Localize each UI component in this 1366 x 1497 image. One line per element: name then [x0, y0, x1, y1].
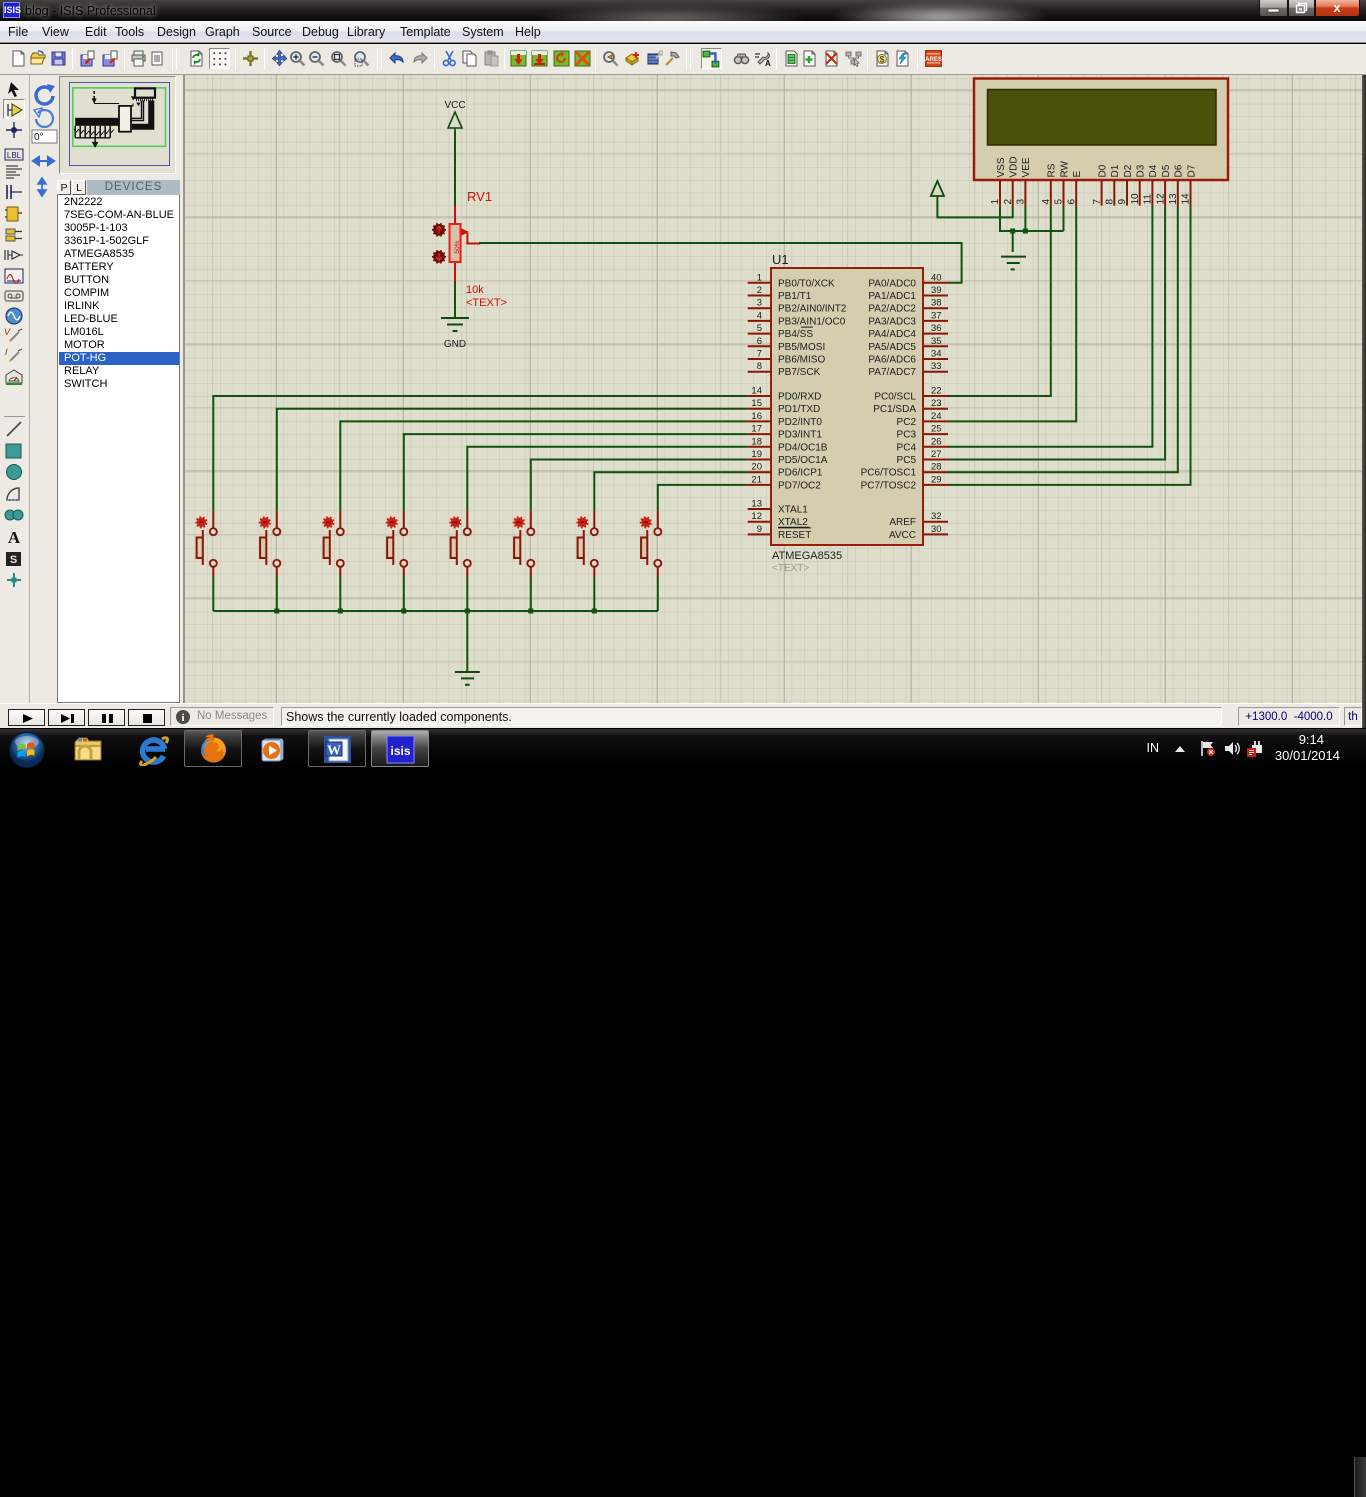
svg-text:VEE: VEE — [1021, 157, 1032, 177]
U1 pin 24 (PC2) — [897, 411, 948, 428]
wire LCD RS to U1 pin 22 — [948, 206, 1051, 396]
U1 pin 35 (PA5/ADC5) — [868, 336, 948, 353]
svg-text:U1: U1 — [772, 252, 789, 267]
svg-text:12: 12 — [1155, 193, 1166, 205]
svg-text:1: 1 — [757, 272, 762, 283]
svg-text:25: 25 — [931, 424, 942, 435]
LCD1 pin 10 (D3) — [1130, 164, 1147, 205]
wire LCD E to U1 pin 24 — [948, 206, 1076, 422]
svg-text:PB0/T0/XCK: PB0/T0/XCK — [778, 278, 835, 289]
U1 pin 17 (PD3/INT1) — [748, 424, 823, 441]
svg-text:PC6/TOSC1: PC6/TOSC1 — [861, 468, 917, 479]
svg-text:6: 6 — [757, 336, 762, 347]
U1 pin 19 (PD5/OC1A) — [748, 449, 828, 466]
svg-text:PC7/TOSC2: PC7/TOSC2 — [861, 480, 917, 491]
svg-text:PB7/SCK: PB7/SCK — [778, 367, 821, 378]
svg-text:PA6/ADC6: PA6/ADC6 — [868, 355, 916, 366]
svg-text:PD1/TXD: PD1/TXD — [778, 404, 820, 415]
U1 pin 26 (PC4) — [897, 436, 948, 453]
svg-text:D3: D3 — [1136, 164, 1147, 177]
svg-text:E: E — [1072, 171, 1083, 178]
wire ground stem — [1012, 231, 1014, 252]
LCD1 pin 8 (D1) — [1105, 164, 1122, 205]
U1 pin 16 (PD2/INT0) — [748, 411, 823, 428]
svg-text:PC4: PC4 — [897, 442, 917, 453]
svg-text:VDD: VDD — [1009, 156, 1020, 177]
wire LCD D4 to U1 pin 26 — [948, 206, 1152, 447]
U1 pin 23 (PC1/SDA) — [873, 398, 948, 415]
wire U1 pin 21 to button 8 — [658, 485, 748, 511]
junction bus 1 — [274, 609, 279, 614]
wire button 6 to ground bus — [530, 577, 532, 611]
svg-text:PD2/INT0: PD2/INT0 — [778, 417, 822, 428]
svg-text:PD3/INT1: PD3/INT1 — [778, 430, 822, 441]
svg-text:RV1: RV1 — [467, 189, 492, 204]
pushbutton SW7 (BUTTON) — [576, 511, 598, 577]
ground GND (below RV1) — [441, 318, 469, 350]
LCD1 pin 3 (VEE) — [1016, 157, 1033, 205]
junction bus 2 — [338, 609, 343, 614]
wire VCC to LCD VDD — [937, 200, 1012, 217]
svg-text:PA3/ADC3: PA3/ADC3 — [868, 316, 916, 327]
svg-text:x: x — [1333, 0, 1341, 15]
svg-text:PD5/OC1A: PD5/OC1A — [778, 455, 828, 466]
svg-text:36: 36 — [931, 323, 942, 334]
svg-text:<TEXT>: <TEXT> — [466, 297, 507, 309]
svg-text:3: 3 — [757, 298, 762, 309]
svg-text:8: 8 — [1105, 199, 1116, 205]
svg-text:6: 6 — [1066, 199, 1077, 205]
svg-text:PB5/MOSI: PB5/MOSI — [778, 342, 825, 353]
svg-text:21: 21 — [751, 474, 762, 485]
svg-text:20: 20 — [751, 462, 762, 473]
svg-text:13: 13 — [751, 499, 762, 510]
U1 pin 5 (PB4/SS) — [748, 323, 814, 340]
svg-text:XTAL2: XTAL2 — [778, 517, 808, 528]
svg-text:8: 8 — [757, 361, 762, 372]
svg-text:PA7/ADC7: PA7/ADC7 — [868, 367, 916, 378]
svg-text:14: 14 — [1181, 193, 1192, 205]
junction bus 3 — [401, 609, 406, 614]
U1 pin 28 (PC6/TOSC1) — [861, 462, 948, 479]
svg-text:2: 2 — [1003, 199, 1014, 205]
svg-text:D2: D2 — [1123, 164, 1134, 177]
svg-text:D7: D7 — [1186, 164, 1197, 177]
U1 pin 34 (PA6/ADC6) — [868, 349, 948, 366]
RV1 decrement button — [432, 250, 446, 263]
pushbutton SW1 (BUTTON) — [195, 511, 217, 577]
svg-text:W: W — [327, 744, 341, 759]
wire LCD D6 to U1 pin 28 — [948, 206, 1178, 473]
svg-text:PC3: PC3 — [897, 430, 917, 441]
U1 pin 8 (PB7/SCK) — [748, 361, 821, 378]
wire LCD RW down — [1063, 206, 1065, 231]
svg-text:I: I — [5, 347, 8, 357]
LCD1 pin 1 (VSS) — [990, 157, 1007, 205]
LCD1 pin 9 (D2) — [1117, 164, 1134, 205]
U1 pin 6 (PB5/MOSI) — [748, 336, 826, 353]
LCD1 pin 7 (D0) — [1092, 164, 1109, 205]
svg-text:PA1/ADC1: PA1/ADC1 — [868, 291, 916, 302]
svg-text:PC5: PC5 — [897, 455, 917, 466]
svg-text:13: 13 — [1168, 193, 1179, 205]
U1 pin 9 (RESET) — [748, 524, 812, 541]
wire LCD D7 to U1 pin 29 — [948, 206, 1191, 485]
svg-text:S: S — [10, 554, 17, 566]
svg-text:AREF: AREF — [889, 517, 916, 528]
svg-text:AVCC: AVCC — [889, 530, 916, 541]
U1 pin 22 (PC0/SCL) — [874, 386, 948, 403]
svg-text:15: 15 — [751, 398, 762, 409]
wire U1 pin 15 to button 2 — [277, 409, 748, 511]
svg-text:LBL: LBL — [7, 151, 22, 160]
svg-text:35: 35 — [931, 336, 942, 347]
U1 pin 36 (PA4/ADC4) — [868, 323, 948, 340]
U1 pin 33 (PA7/ADC7) — [868, 361, 948, 378]
ground GND (below buttons) — [455, 672, 480, 685]
U1 pin 13 (XTAL1) — [748, 499, 809, 516]
junction (VEE) — [1023, 229, 1028, 234]
svg-text:0°: 0° — [34, 132, 44, 143]
wire button 7 to ground bus — [593, 577, 595, 611]
svg-text:39: 39 — [931, 285, 942, 296]
svg-text:A: A — [8, 528, 21, 547]
U1 pin 1 (PB0/T0/XCK) — [748, 272, 835, 289]
svg-text:PB1/T1: PB1/T1 — [778, 291, 812, 302]
svg-text:3: 3 — [1016, 199, 1027, 205]
U1 pin 15 (PD1/TXD) — [748, 398, 821, 415]
junction (GND stem) — [1010, 229, 1015, 234]
svg-text:32: 32 — [931, 511, 942, 522]
svg-text:D1: D1 — [1110, 164, 1121, 177]
U1 pin 21 (PD7/OC2) — [748, 474, 822, 491]
svg-text:10k: 10k — [466, 284, 484, 296]
svg-text:<TEXT>: <TEXT> — [772, 563, 809, 574]
svg-text:26: 26 — [931, 436, 942, 447]
svg-text:XTAL1: XTAL1 — [778, 505, 808, 516]
svg-text:D6: D6 — [1174, 164, 1185, 177]
svg-text:34: 34 — [931, 349, 942, 360]
svg-text:PD4/OC1B: PD4/OC1B — [778, 442, 828, 453]
power terminal VCC (RV1) — [444, 100, 465, 132]
U1 pin 4 (PB3/AIN1/OC0) — [748, 310, 846, 327]
svg-text:PB4/SS: PB4/SS — [778, 329, 813, 340]
wire button 1 to ground bus — [212, 577, 214, 611]
svg-text:PD6/ICP1: PD6/ICP1 — [778, 468, 823, 479]
LCD1 pin 2 (VDD) — [1003, 156, 1020, 205]
svg-text:isis: isis — [390, 744, 410, 758]
svg-text:D4: D4 — [1148, 164, 1159, 177]
wire RV1 to GND — [454, 281, 456, 318]
svg-text:PC1/SDA: PC1/SDA — [873, 404, 916, 415]
LCD1 pin 4 (RS) — [1041, 163, 1058, 205]
svg-text:4: 4 — [757, 310, 762, 321]
svg-text:GND: GND — [444, 339, 466, 350]
wire VCC to RV1 — [454, 131, 456, 206]
svg-text:19: 19 — [751, 449, 762, 460]
wire bus to GND — [466, 611, 468, 672]
U1 pin 40 (PA0/ADC0) — [868, 272, 948, 289]
wire button 5 to ground bus — [466, 577, 468, 611]
svg-text:ATMEGA8535: ATMEGA8535 — [772, 550, 842, 562]
svg-text:V: V — [4, 327, 11, 337]
svg-text:RW: RW — [1059, 160, 1070, 177]
svg-text:5: 5 — [1054, 199, 1065, 205]
svg-text:D5: D5 — [1161, 164, 1172, 177]
pushbutton SW5 (BUTTON) — [449, 511, 471, 577]
svg-text:17: 17 — [751, 424, 762, 435]
svg-text:16: 16 — [751, 411, 762, 422]
wire U1 pin 18 to button 5 — [467, 447, 747, 511]
svg-text:D0: D0 — [1097, 164, 1108, 177]
svg-text:18: 18 — [751, 436, 762, 447]
wire LCD VEE down — [1024, 206, 1026, 231]
LCD1 pin 14 (D7) — [1181, 164, 1198, 205]
svg-text:RS: RS — [1047, 163, 1058, 177]
svg-text:38: 38 — [931, 298, 942, 309]
ground GND (below LCD) — [1001, 257, 1026, 270]
svg-text:i: i — [181, 712, 184, 724]
wire U1 pin 17 to button 4 — [404, 434, 748, 511]
svg-text:40: 40 — [931, 272, 942, 283]
U1 pin 14 (PD0/RXD) — [748, 386, 822, 403]
pushbutton SW2 (BUTTON) — [259, 511, 281, 577]
svg-text:VSS: VSS — [996, 157, 1007, 177]
svg-text:PC0/SCL: PC0/SCL — [874, 392, 916, 403]
pushbutton SW6 (BUTTON) — [513, 511, 535, 577]
LCD1 pin 5 (RW) — [1054, 160, 1071, 205]
wire U1 pin 16 to button 3 — [340, 421, 747, 510]
svg-text:A: A — [765, 59, 771, 67]
svg-text:33: 33 — [931, 361, 942, 372]
U1 pin 38 (PA2/ADC2) — [868, 298, 948, 315]
junction bus 4 — [465, 609, 470, 614]
wire U1 pin 14 to button 1 — [213, 396, 747, 511]
svg-text:PD7/OC2: PD7/OC2 — [778, 480, 821, 491]
wire U1 pin 19 to button 6 — [531, 460, 748, 511]
wire button 2 to ground bus — [276, 577, 278, 611]
LCD1 pin 6 (E) — [1066, 171, 1083, 206]
svg-text:9: 9 — [1117, 199, 1128, 205]
U1 pin 37 (PA3/ADC3) — [868, 310, 948, 327]
wire U1 pin 20 to button 7 — [594, 472, 747, 511]
wire ground bus — [213, 610, 658, 612]
svg-text:PB3/AIN1/OC0: PB3/AIN1/OC0 — [778, 316, 846, 327]
U1 pin 3 (PB2/AIN0/INT2) — [748, 298, 847, 315]
junction bus 5 — [528, 609, 533, 614]
svg-text:7: 7 — [1092, 199, 1103, 205]
wire button 4 to ground bus — [403, 577, 405, 611]
svg-text:11: 11 — [1143, 194, 1154, 205]
svg-text:PA2/ADC2: PA2/ADC2 — [868, 304, 916, 315]
LCD1 pin 13 (D6) — [1168, 164, 1185, 205]
svg-text:23: 23 — [931, 398, 942, 409]
wire LCD D5 to U1 pin 27 — [948, 206, 1165, 460]
svg-text:12: 12 — [751, 511, 762, 522]
U1 pin 39 (PA1/ADC1) — [868, 285, 948, 302]
U1 pin 27 (PC5) — [897, 449, 948, 466]
svg-text:ARES: ARES — [925, 57, 942, 63]
svg-text:PA5/ADC5: PA5/ADC5 — [868, 342, 916, 353]
svg-text:37: 37 — [931, 310, 942, 321]
U1 pin 29 (PC7/TOSC2) — [861, 474, 948, 491]
U1 pin 2 (PB1/T1) — [748, 285, 812, 302]
svg-text:27: 27 — [931, 449, 942, 460]
svg-text:PB6/MISO: PB6/MISO — [778, 355, 825, 366]
wire button 3 to ground bus — [339, 577, 341, 611]
svg-text:24: 24 — [931, 411, 942, 422]
resistor RV1 (POT-HG) — [450, 206, 481, 281]
svg-text:PA0/ADC0: PA0/ADC0 — [868, 278, 916, 289]
svg-text:$: $ — [879, 55, 884, 65]
U1 pin 18 (PD4/OC1B) — [748, 436, 828, 453]
LCD display LM016L — [974, 79, 1228, 181]
U1 pin 25 (PC3) — [897, 424, 948, 441]
LCD1 pin 11 (D4) — [1143, 164, 1160, 205]
svg-text:10: 10 — [1130, 193, 1141, 205]
IC U1 ATMEGA8535 — [771, 268, 923, 545]
svg-text:PA4/ADC4: PA4/ADC4 — [868, 329, 916, 340]
wire RV1 wiper to U1 pin 40 — [479, 243, 962, 283]
svg-text:28: 28 — [931, 462, 942, 473]
svg-text:29: 29 — [931, 474, 942, 485]
svg-text:7: 7 — [757, 349, 762, 360]
wire LCD VSS to ground bus — [1000, 206, 1064, 231]
svg-text:9: 9 — [757, 524, 762, 535]
U1 pin 30 (AVCC) — [889, 524, 948, 541]
U1 pin 20 (PD6/ICP1) — [748, 462, 823, 479]
svg-text:1: 1 — [990, 199, 1001, 205]
svg-text:5: 5 — [757, 323, 762, 334]
pushbutton SW8 (BUTTON) — [640, 511, 662, 577]
svg-text:PD0/RXD: PD0/RXD — [778, 392, 821, 403]
pushbutton SW4 (BUTTON) — [386, 511, 408, 577]
U1 pin 12 (XTAL2) — [748, 511, 809, 528]
svg-text:2: 2 — [757, 285, 762, 296]
LCD1 pin 12 (D5) — [1155, 164, 1172, 205]
pushbutton SW3 (BUTTON) — [322, 511, 344, 577]
RV1 increment button — [432, 223, 446, 236]
svg-text:50%: 50% — [454, 240, 461, 253]
svg-text:PB2/AIN0/INT2: PB2/AIN0/INT2 — [778, 304, 847, 315]
wire button 8 to ground bus — [657, 577, 659, 611]
U1 pin 32 (AREF) — [889, 511, 948, 528]
svg-text:22: 22 — [931, 386, 942, 397]
svg-text:30: 30 — [931, 524, 942, 535]
power terminal VCC (LCD) — [931, 181, 944, 200]
svg-text:PC2: PC2 — [897, 417, 917, 428]
junction bus 6 — [592, 609, 597, 614]
svg-text:VCC: VCC — [444, 100, 465, 111]
svg-text:4: 4 — [1041, 199, 1052, 205]
svg-text:RESET: RESET — [778, 530, 811, 541]
svg-text:14: 14 — [751, 386, 762, 397]
U1 pin 7 (PB6/MISO) — [748, 349, 826, 366]
